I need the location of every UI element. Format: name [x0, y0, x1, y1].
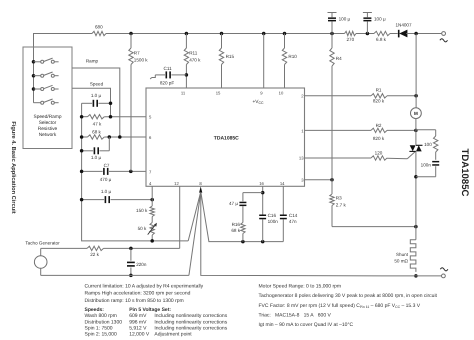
svg-text:15: 15: [216, 90, 221, 95]
svg-text:22 k: 22 k: [90, 252, 99, 257]
svg-text:100: 100: [424, 142, 432, 147]
svg-text:120: 120: [375, 151, 383, 156]
node C16-rail: [261, 240, 265, 244]
capacitor 100u #1: [328, 12, 337, 14]
svg-text:6.8 k: 6.8 k: [376, 37, 387, 42]
svg-text:68 k: 68 k: [231, 228, 240, 233]
node 47k-right: [109, 115, 113, 119]
svg-text:820 k: 820 k: [373, 136, 385, 141]
node pot-rail: [150, 239, 154, 243]
capacitor 1.0u top: [82, 102, 93, 104]
node C7-left: [80, 170, 84, 174]
wire bus diode-to-terminal: [406, 33, 441, 35]
svg-text:Motor Speed Range: 0 to 15,000: Motor Speed Range: 0 to 15,000 rpm: [259, 283, 342, 289]
wire Speed: [72, 88, 111, 117]
svg-text:220n: 220n: [136, 262, 147, 267]
wire bus 6.8k-to-diode: [390, 33, 398, 35]
resistor 22k: [41, 247, 87, 249]
tacho generator G1: [34, 256, 47, 269]
wire Ramp: [72, 68, 120, 137]
svg-text:Network: Network: [39, 132, 57, 138]
capacitor 100u #2: [363, 12, 372, 14]
resistor 270: [345, 31, 357, 35]
snubber capacitor 100n: [432, 161, 439, 163]
resistor R15: [221, 34, 223, 49]
node 220n-top: [129, 247, 133, 251]
potentiometer 50k: [150, 223, 154, 236]
node C7-R7: [129, 170, 133, 174]
wire triac-to-shunt: [415, 151, 417, 239]
node 68k-ramp: [118, 135, 122, 139]
wire pin14 vertical: [282, 186, 284, 214]
capacitor 1.0u lower: [82, 150, 94, 152]
svg-text:470 k: 470 k: [189, 57, 201, 62]
svg-text:100n: 100n: [268, 219, 279, 224]
node R16-rail: [241, 240, 245, 244]
wire fan C1: [201, 192, 283, 241]
svg-text:470 μ: 470 μ: [100, 177, 112, 182]
svg-text:Tacho Generator: Tacho Generator: [25, 240, 60, 245]
svg-text:100 μ: 100 μ: [339, 16, 351, 21]
svg-text:50 mΩ: 50 mΩ: [394, 259, 408, 264]
wire pin4 chain: [151, 186, 153, 199]
svg-text:1500 k: 1500 k: [134, 57, 148, 62]
svg-text:Speeds:: Speeds:: [85, 307, 105, 313]
svg-text:50 k: 50 k: [138, 226, 147, 231]
svg-text:Igt min – 90 mA to cover Quad: Igt min – 90 mA to cover Quad IV at –10°…: [259, 322, 354, 328]
capacitor 220n: [130, 248, 132, 260]
svg-text:47 k: 47 k: [93, 122, 102, 127]
motor M1: [411, 108, 422, 119]
node cap-pin4-left: [80, 198, 84, 202]
AC symbol top: [440, 39, 448, 42]
capacitor 47u: [239, 202, 246, 204]
svg-text:Speed: Speed: [90, 81, 104, 86]
node 68k-left: [80, 135, 84, 139]
wire fan A: [188, 192, 200, 241]
svg-text:12,000 V: 12,000 V: [129, 331, 150, 337]
svg-text:609 mV: 609 mV: [129, 313, 147, 319]
wire ladder left rail: [82, 103, 189, 241]
node pin3-R4: [330, 178, 334, 182]
wire pin9 VCC: [263, 34, 265, 89]
svg-text:820 pF: 820 pF: [160, 81, 174, 86]
ground arrow pin 8: [199, 187, 202, 193]
resistor R3 2.7k: [330, 194, 334, 206]
wire pin12 vertical: [179, 186, 181, 248]
svg-text:2.7 k: 2.7 k: [336, 202, 347, 207]
node R1-main: [414, 94, 418, 98]
node pin16-jog: [261, 191, 265, 195]
svg-text:R7: R7: [134, 51, 140, 56]
svg-text:C16: C16: [268, 213, 277, 218]
svg-text:270: 270: [346, 37, 354, 42]
switch S4: [34, 102, 41, 104]
node C-100u-2 bus: [366, 32, 370, 36]
wire pin16 vertical: [262, 186, 264, 214]
svg-text:Adjustment point: Adjustment point: [154, 331, 192, 337]
svg-text:Spin 2: 15,000: Spin 2: 15,000: [85, 331, 117, 337]
svg-text:680: 680: [95, 25, 103, 30]
node C11-R11: [185, 73, 189, 77]
svg-text:100 μ: 100 μ: [374, 16, 386, 21]
svg-text:Figure 4. Basic Application Ci: Figure 4. Basic Application Circuit: [10, 121, 17, 213]
shunt 50mOhm: [410, 240, 416, 272]
wire bus-to-selector vertical: [33, 34, 35, 103]
resistor R11 470k: [185, 34, 187, 49]
terminal AC line bottom: [416, 275, 442, 277]
switch S2: [32, 74, 36, 78]
svg-text:1N4007: 1N4007: [395, 22, 412, 27]
svg-text:Resistive: Resistive: [38, 126, 58, 132]
node C-100u-1 bus: [330, 32, 334, 36]
svg-text:R10: R10: [288, 54, 297, 59]
svg-text:Wash 800 rpm: Wash 800 rpm: [85, 313, 117, 319]
wire fan C2: [201, 192, 416, 276]
node R15-bus: [220, 32, 224, 36]
svg-text:TDA1085C: TDA1085C: [214, 135, 239, 141]
svg-text:11: 11: [181, 90, 186, 95]
svg-text:R4: R4: [336, 56, 342, 61]
wire pot-to-rail: [151, 235, 153, 241]
node AC-top junction: [414, 32, 418, 36]
svg-text:Including nonlinearity correct: Including nonlinearity corrections: [154, 319, 227, 325]
wire fan B: [189, 192, 201, 275]
svg-text:Pin 5 Voltage Set:: Pin 5 Voltage Set:: [129, 307, 171, 313]
node shunt-bottom: [414, 274, 418, 278]
node cap-pin4-right: [150, 198, 154, 202]
svg-text:1.0 μ: 1.0 μ: [91, 155, 102, 160]
svg-text:Distribution 1300: Distribution 1300: [85, 319, 123, 325]
svg-text:Tachogenerator 8 poles deliver: Tachogenerator 8 poles delivering 30 V p…: [259, 293, 438, 299]
svg-text:Ramp: Ramp: [86, 59, 99, 64]
wire 47u jog: [243, 192, 263, 194]
svg-text:Distribution ramp: 10 s from 8: Distribution ramp: 10 s from 850 to 1300…: [85, 298, 184, 304]
node 68k-mid: [108, 135, 112, 139]
wire bus 270-to-6.8k: [356, 33, 374, 35]
wire tacho bottom rail: [41, 274, 189, 276]
resistor 150k: [150, 206, 154, 217]
capacitor C14 47n: [280, 215, 287, 217]
resistor R16 68k: [241, 223, 245, 234]
node R2-main: [414, 129, 418, 133]
wire top bus middle segment: [106, 33, 345, 35]
node cap-lower-left: [80, 149, 84, 153]
wire main vertical upper: [415, 34, 417, 108]
terminal AC line top: [442, 32, 446, 36]
resistor R7 1500k: [130, 34, 132, 49]
svg-text:Ramps High acceleration: 3200: Ramps High acceleration: 3200 rpm per se…: [85, 290, 191, 296]
svg-text:1.0 μ: 1.0 μ: [91, 93, 102, 98]
svg-text:R3: R3: [336, 196, 342, 201]
diode D1 1N4007: [399, 30, 407, 38]
svg-text:100n: 100n: [421, 163, 432, 168]
wire pin3: [305, 179, 333, 181]
node ladder: [109, 102, 113, 106]
wire top bus left segment: [33, 33, 92, 35]
svg-text:Speed/Ramp: Speed/Ramp: [34, 114, 62, 120]
svg-text:TDA1085C: TDA1085C: [459, 149, 470, 197]
svg-text:150 k: 150 k: [136, 208, 148, 213]
switch S3: [32, 87, 36, 91]
svg-text:Including nonlinearity correct: Including nonlinearity corrections: [154, 313, 227, 319]
svg-text:Triac: MAC15A-8 15 A 600: Triac: MAC15A-8 15 A 600 V: [259, 312, 332, 318]
svg-text:47 μ: 47 μ: [229, 201, 238, 206]
resistor R10: [284, 34, 286, 49]
svg-text:R2: R2: [376, 123, 382, 128]
resistor R4: [331, 34, 333, 49]
AC symbol bottom: [440, 268, 448, 271]
svg-text:R1: R1: [376, 88, 382, 93]
svg-text:10: 10: [279, 90, 284, 95]
svg-text:Current limitation: 10 A adjus: Current limitation: 10 A adjusted by R4 …: [85, 284, 204, 290]
wire 68k-to-cap jog: [108, 137, 110, 151]
node 47k-left: [80, 115, 84, 119]
wire R3-to-shunt: [332, 226, 416, 228]
node R11-bus: [185, 32, 189, 36]
svg-text:Shunt: Shunt: [396, 252, 409, 257]
svg-text:820 k: 820 k: [373, 99, 385, 104]
wire motor-to-triac: [415, 119, 417, 145]
svg-text:M: M: [414, 111, 418, 116]
svg-text:R11: R11: [189, 51, 198, 56]
triac Q1: [410, 145, 416, 151]
resistor 6.8k: [374, 31, 390, 35]
svg-text:47n: 47n: [289, 219, 297, 224]
op-amp U1 TDA1085C box: [146, 88, 305, 186]
node 220n-bottom: [129, 274, 133, 278]
svg-text:C14: C14: [289, 213, 298, 218]
selector box: [23, 47, 72, 149]
svg-text:12: 12: [174, 181, 179, 186]
svg-text:C7: C7: [104, 163, 110, 168]
svg-text:68 k: 68 k: [92, 129, 101, 134]
capacitor C16 100n: [259, 215, 266, 217]
switch S1: [32, 60, 36, 64]
resistor 680: [92, 31, 106, 35]
resistor 47k: [82, 116, 88, 118]
svg-text:13: 13: [299, 155, 304, 160]
snubber resistor 100: [416, 129, 436, 131]
node R7-bus: [129, 32, 133, 36]
svg-text:R15: R15: [226, 54, 235, 59]
svg-text:R16: R16: [232, 222, 241, 227]
node pin9-bus: [262, 32, 266, 36]
node shunt-top: [414, 225, 418, 229]
svg-text:C11: C11: [164, 66, 173, 71]
svg-text:996 mV: 996 mV: [129, 319, 147, 325]
svg-text:1.0 μ: 1.0 μ: [101, 189, 112, 194]
node R10-bus: [283, 32, 287, 36]
wire 150k-pot: [151, 217, 153, 223]
svg-text:Selector: Selector: [39, 120, 57, 126]
svg-text:16: 16: [259, 181, 264, 186]
node snubber-bottom: [414, 175, 418, 179]
svg-text:14: 14: [280, 181, 285, 186]
